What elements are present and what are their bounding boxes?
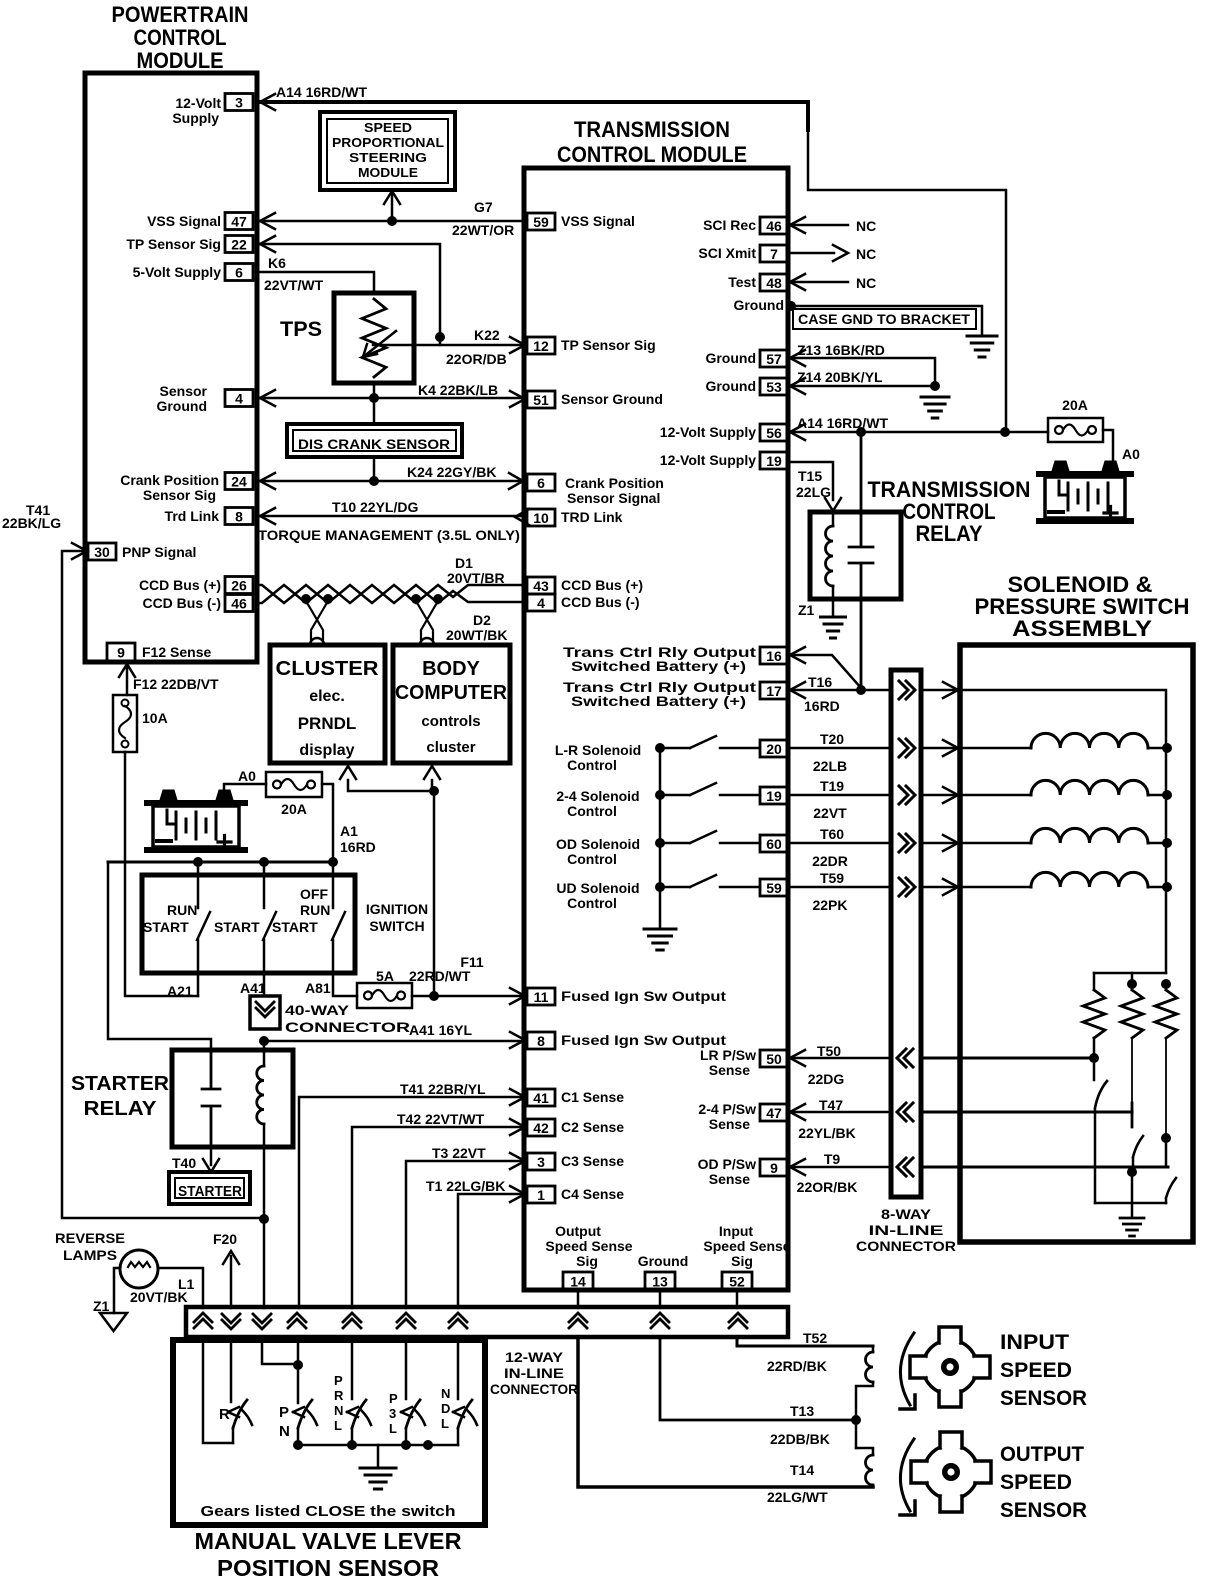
svg-text:Sig: Sig [731,1253,753,1269]
svg-text:20A: 20A [1062,397,1088,413]
label 16RD [340,839,376,855]
wire case ground [791,306,982,335]
label G7 [474,199,493,215]
switch NDL [453,1400,477,1445]
PCM pin 6 label [133,264,222,280]
node bus PRNL [347,1440,357,1450]
svg-text:Switched Battery (+): Switched Battery (+) [571,658,746,674]
svg-text:OD Solenoid: OD Solenoid [556,836,640,852]
label T50 [817,1043,841,1059]
TCM left pin 6 [527,474,555,491]
wire pressure switch common [1095,1202,1166,1205]
label starter [178,1183,242,1200]
svg-text:A14 16RD/WT: A14 16RD/WT [797,415,888,431]
label A21 [167,983,193,999]
label 22RD/WT [409,968,471,984]
wire T41 22BR/YL C1 [299,1089,525,1308]
TCM pin 59 label [561,213,635,229]
wire T14 22LG/WT [578,1337,873,1487]
svg-text:T47: T47 [819,1097,843,1113]
svg-text:19: 19 [766,453,782,469]
svg-text:46: 46 [766,218,782,234]
12-way in-line connector box [186,1307,788,1337]
node K22 junction [435,332,445,342]
label 5A [376,968,394,984]
ground Z1 triangle [100,1313,127,1331]
label K22 [474,327,500,343]
input speed sensor rotation arrow [900,1333,915,1409]
switch P3L [401,1400,425,1445]
label NC 3 [856,275,876,291]
TCM Test label [728,274,756,290]
svg-text:5-Volt Supply: 5-Volt Supply [133,264,222,280]
8-way chevron right y795 [899,786,915,804]
starter relay box [172,1050,293,1147]
label 40-way connector [285,1002,410,1035]
svg-text:C1 Sense: C1 Sense [561,1089,624,1105]
svg-text:22WT/OR: 22WT/OR [452,222,514,238]
TCM pin 1 label [561,1186,624,1202]
svg-text:10: 10 [533,510,549,526]
TCM pin 53 label [705,378,756,394]
label transmission control relay [868,477,1031,546]
label 10A [142,710,168,726]
TCM right pin 59 (row 12) [760,879,788,896]
TCM pin 43 label [561,577,643,593]
ground case bracket [967,336,997,357]
svg-text:22RD/WT: 22RD/WT [409,968,471,984]
label 16RD [804,698,840,714]
svg-text:12: 12 [533,338,549,354]
svg-text:2-4 P/Sw: 2-4 P/Sw [698,1101,756,1117]
svg-text:IN-LINE: IN-LINE [504,1366,564,1381]
wire A14 16RD/WT from PCM pin 3 to TCM pin 56 feed [258,94,1006,432]
TCM bottom pin 52 [722,1272,752,1290]
PCM pin 30 label [122,544,196,560]
TCM pin 16 label [563,644,756,674]
svg-text:Test: Test [728,274,756,290]
svg-text:20: 20 [766,741,782,757]
12-way chevron up at 297 [288,1313,306,1328]
ignition switch box [142,875,355,973]
node CCD tap cluster a [301,594,311,604]
TCM OD solenoid label [556,836,640,867]
svg-text:2-4 Solenoid: 2-4 Solenoid [556,788,639,804]
TCM pin 12 label [561,337,656,353]
node solenoid return T19 [1162,790,1172,800]
svg-text:22OR/BK: 22OR/BK [797,1179,858,1195]
svg-text:G7: G7 [474,199,493,215]
PCM pin 22 [225,236,253,253]
label 22YL/BK [798,1125,856,1141]
svg-text:T10 22YL/DG: T10 22YL/DG [332,499,418,515]
svg-text:17: 17 [766,683,782,699]
svg-text:F12 Sense: F12 Sense [142,644,211,660]
label Z14 20BK/YL [797,369,883,385]
svg-text:D1: D1 [455,555,473,571]
svg-text:T59: T59 [820,870,844,886]
TCM right pin 47 (row 14) [760,1104,788,1121]
svg-text:42: 42 [533,1120,549,1136]
svg-text:VSS Signal: VSS Signal [147,213,221,229]
svg-text:P: P [334,1373,343,1388]
PCM pin 3 [225,94,253,111]
svg-text:Control: Control [567,895,617,911]
switch solenoid driver y887 [660,875,760,887]
MVLPS drop starter jog [262,1337,298,1364]
svg-text:OUTPUT: OUTPUT [1000,1443,1084,1466]
label reverse lamps [55,1230,125,1263]
node relay cap junction [856,427,866,437]
svg-text:SENSOR: SENSOR [1000,1499,1087,1522]
svg-text:Trd Link: Trd Link [165,508,220,524]
svg-text:22OR/DB: 22OR/DB [446,351,507,367]
svg-text:16: 16 [766,648,782,664]
svg-text:20A: 20A [281,801,307,817]
MVLPS drop R-return [203,1337,233,1443]
node PN top junction [293,1360,303,1370]
svg-text:Ground: Ground [638,1253,689,1269]
wire lamp to ground [114,1268,120,1313]
ignition switch blade 3 [332,912,345,940]
svg-text:Fused Ign Sw Output: Fused Ign Sw Output [561,988,726,1004]
svg-text:controls: controls [421,713,480,730]
wire R3 to T9 [1165,1138,1168,1167]
TCM left pin 10 [527,509,555,526]
svg-text:57: 57 [766,351,782,367]
svg-text:3: 3 [235,95,243,111]
svg-text:CCD Bus (-): CCD Bus (-) [142,595,221,611]
PCM pin 9 [107,643,135,661]
node CCD tap body b [433,594,443,604]
label T42 22VT/WT [397,1111,485,1127]
svg-text:53: 53 [766,379,782,395]
wire lamp to connector L1 [158,1268,203,1308]
svg-text:SPEED: SPEED [364,121,412,135]
svg-text:T20: T20 [820,731,844,747]
svg-text:20VT/BK: 20VT/BK [130,1289,188,1305]
svg-text:TRANSMISSION: TRANSMISSION [574,117,730,142]
svg-text:TRD Link: TRD Link [561,509,623,525]
wire Test NC [788,274,848,290]
12-way chevron up at 578 [569,1313,587,1328]
svg-text:T9: T9 [824,1151,841,1167]
label L1 [178,1276,195,1292]
ground Z13/Z14 [921,397,949,418]
node 2-4 ground junction [1127,1167,1137,1177]
wire K4 22BK/LB sensor ground [258,390,525,407]
wire T15 22LG pin 19 [788,462,841,511]
svg-text:Sensor Signal: Sensor Signal [567,490,660,506]
wire MVLPS common bus [298,1444,458,1447]
svg-text:CONNECTOR: CONNECTOR [856,1238,956,1254]
node TCM solenoid junction y795 [655,790,665,800]
TCM right pin 17 (row 8) [760,682,788,699]
label T40 [172,1155,196,1171]
TCM pin 4 label [561,594,640,610]
resistor R3 OD [1155,984,1177,1138]
svg-text:T1 22LG/BK: T1 22LG/BK [426,1178,505,1194]
wire 12V supply pin 56 [788,424,1048,440]
svg-text:POSITION SENSOR: POSITION SENSOR [217,1555,439,1581]
svg-text:Speed Sense: Speed Sense [545,1238,632,1254]
svg-text:DIS CRANK SENSOR: DIS CRANK SENSOR [298,437,450,452]
TCM right pin 56 (row 5) [760,424,788,441]
TCM pin 19 label [660,452,756,468]
svg-text:1: 1 [537,1187,545,1203]
svg-text:56: 56 [766,425,782,441]
node K4 junction [369,393,379,403]
solenoid assembly box [960,645,1193,1242]
TCM right pin 9 (row 15) [760,1159,788,1176]
12-way chevron up at 203 [194,1313,212,1328]
inductor relay coil [826,513,833,617]
svg-text:POWERTRAIN: POWERTRAIN [112,2,249,27]
switch solenoid driver y843 [660,831,760,843]
svg-text:8: 8 [235,509,243,525]
wire SCI Rec NC [788,217,848,233]
MVLPS drop PRNL [351,1337,354,1399]
label A0 right [1122,446,1140,462]
label F20 [213,1231,237,1247]
svg-text:T42 22VT/WT: T42 22VT/WT [397,1111,485,1127]
svg-text:Sensor: Sensor [160,383,208,399]
svg-text:22YL/BK: 22YL/BK [798,1125,856,1141]
PCM pin 4 [225,390,253,407]
output speed sensor icon [911,1432,991,1512]
output speed sensor rotation arrow [900,1439,915,1515]
svg-text:START: START [272,919,318,935]
svg-text:14: 14 [570,1274,586,1290]
label A41 [240,980,266,996]
node R3 top [1161,979,1171,989]
svg-text:SCI Xmit: SCI Xmit [698,245,756,261]
svg-text:19: 19 [766,788,782,804]
TCM left pin 43 [527,577,555,594]
label P3L [389,1391,398,1436]
label A14 16RD/WT right [797,415,888,431]
TCM right pin 46 (row 0) [760,217,788,234]
node cluster feed junction [429,786,439,796]
wire TPS bottom to DIS [373,383,376,424]
svg-text:22DB/BK: 22DB/BK [770,1431,830,1447]
wire CCD drop to body computer [416,601,438,645]
TCM output speed sense label [545,1223,632,1269]
wire TCM solenoid common [659,748,662,928]
svg-text:12-Volt: 12-Volt [175,95,221,111]
wire input speed sig [736,1290,739,1308]
label 20VT/BK [130,1289,188,1305]
label 20A left [281,801,307,817]
svg-text:TPS: TPS [280,318,322,341]
svg-text:Z14 20BK/YL: Z14 20BK/YL [797,369,883,385]
svg-text:8-WAY: 8-WAY [881,1206,932,1222]
label 22PK [812,897,847,913]
wire T16 to solenoid rail [921,682,1166,973]
transmission control relay box [810,512,901,599]
wire G7 22WT/OR VSS signal [258,213,527,229]
label D1 [455,555,473,571]
svg-text:Sensor Ground: Sensor Ground [561,391,663,407]
TCM pin 50 label [700,1047,756,1078]
label K6 [268,255,286,271]
svg-text:VSS Signal: VSS Signal [561,213,635,229]
TCM pin 9 label [698,1156,756,1187]
TCM SCI Xmit label [698,245,756,261]
label T20 [820,731,844,747]
svg-text:ASSEMBLY: ASSEMBLY [1012,616,1152,641]
MVLPS drop F20 [230,1337,233,1402]
ignition switch blade 2 [263,912,276,940]
ignition switch blade 1 [197,912,210,940]
label starter relay [71,1073,170,1120]
svg-text:22VT: 22VT [813,805,847,821]
svg-text:Sense: Sense [709,1062,750,1078]
label T41 [26,502,50,518]
svg-text:Input: Input [719,1223,754,1239]
TCM L-R solenoid label [555,742,641,773]
TPS box [334,293,414,383]
TCM right pin 53 (row 4) [760,378,788,395]
svg-text:RELAY: RELAY [916,521,983,546]
inductor solenoid coil T19 [1031,780,1167,795]
TCM left pin 51 [527,391,555,408]
label NDL [441,1386,450,1431]
label T9 [824,1151,841,1167]
label T60 [820,826,844,842]
svg-text:L: L [334,1418,342,1433]
svg-text:6: 6 [537,475,545,491]
svg-text:Sense: Sense [709,1116,750,1132]
label input speed sensor [1000,1331,1087,1410]
svg-text:CONNECTOR: CONNECTOR [285,1019,410,1035]
TCM pin 56 label [660,424,756,440]
svg-text:C2 Sense: C2 Sense [561,1119,624,1135]
label Z13 16BK/RD [797,342,885,358]
svg-text:K24 22GY/BK: K24 22GY/BK [407,464,496,480]
TCM left pin 42 [527,1119,555,1136]
12-way chevron down at 262 [253,1314,271,1329]
PCM pin 30 [88,543,116,560]
svg-text:50: 50 [766,1051,782,1067]
wire solenoid resistor rail [1094,972,1166,975]
wire T19 22VT solenoid feed [788,787,1031,803]
svg-text:Switched Battery (+): Switched Battery (+) [571,693,746,709]
node Z ground junction [930,381,940,391]
SPSM text [332,121,444,180]
svg-text:T50: T50 [817,1043,841,1059]
label 22RD/BK [767,1358,827,1374]
wire T13 22DB/BK [660,1337,856,1420]
MVLPS title [195,1528,462,1581]
40-way connector symbol [250,996,280,1029]
wire T60 22DR solenoid feed [788,835,1031,851]
TCM pin 42 label [561,1119,624,1135]
node CCD tap body a [411,594,421,604]
svg-text:12-Volt Supply: 12-Volt Supply [660,452,756,468]
svg-text:COMPUTER: COMPUTER [395,682,508,704]
node bus junction A41 [259,857,269,867]
svg-text:MANUAL VALVE LEVER: MANUAL VALVE LEVER [195,1528,462,1554]
label solenoid assembly [975,572,1190,641]
8-way in-line connector box [891,670,921,1197]
powertrain control module U1 (PCM) box [85,73,257,662]
node R3 bottom [1161,1133,1171,1143]
8-way chevron left y1167 [897,1158,913,1176]
TCM right pin 20 (row 9) [760,740,788,757]
wire pin 16 diagonal [788,647,861,688]
svg-text:26: 26 [231,578,247,594]
label 22OR/DB [446,351,507,367]
ground MVLPS [360,1468,396,1489]
case gnd to bracket box [793,309,976,329]
svg-text:SCI Rec: SCI Rec [703,217,756,233]
wire CCD drop to cluster [306,601,328,645]
svg-text:RUN: RUN [167,902,197,918]
switch R [228,1400,252,1443]
svg-text:22DR: 22DR [812,853,848,869]
label A0 left [238,768,256,784]
label NC 1 [856,218,876,234]
svg-text:C4 Sense: C4 Sense [561,1186,624,1202]
label T13 [790,1403,814,1419]
ground pressure switches [1120,1218,1144,1236]
TCM pin 3 label [561,1153,624,1169]
TCM pin 11 label [561,988,726,1004]
node K24 junction [369,476,379,486]
PCM pin 46 [225,595,253,612]
wire battery bus [108,862,333,1050]
MVLPS drop NDL [457,1337,460,1399]
switch OD pressure [1166,1178,1176,1203]
label 12-way connector [490,1350,578,1397]
TCM bottom pin 13 [645,1272,675,1290]
svg-text:43: 43 [533,578,549,594]
battery B2 [1039,461,1131,521]
PCM pin 3 label [172,95,221,126]
svg-text:4: 4 [537,595,545,611]
svg-text:6: 6 [235,265,243,281]
label T47 [819,1097,843,1113]
svg-text:5A: 5A [376,968,394,984]
wire T1 22LG/BK C4 [458,1186,525,1308]
svg-text:7: 7 [770,246,778,262]
wire SCI Xmit NC [788,245,848,261]
TCM left pin 12 [527,337,555,354]
svg-text:51: 51 [533,392,549,408]
8-way chevron left y1112 [897,1103,913,1121]
label T15 [798,468,822,484]
wire SPSM drop [384,191,400,221]
TCM right pin 50 (row 13) [760,1050,788,1067]
label A14 16RD/WT [276,84,367,100]
TCM right pin 19 (row 6) [760,452,788,469]
8-way chevron right y690 [899,681,915,699]
svg-text:A41 16YL: A41 16YL [409,1022,472,1038]
node TCM solenoid junction y887 [655,882,665,892]
wire T52 22RD/BK [737,1337,873,1346]
wire 2-4 ground [1131,1172,1134,1217]
TCM ground pin label [638,1253,689,1269]
svg-text:N: N [334,1403,343,1418]
TCM SCI Rec label [703,217,756,233]
label 22BK/LG [2,515,61,531]
node A41 junction [259,1036,269,1046]
manual valve lever position sensor box [173,1340,485,1525]
svg-text:PROPORTIONAL: PROPORTIONAL [332,136,444,150]
svg-text:A1: A1 [340,823,358,839]
label T16 [808,674,832,690]
